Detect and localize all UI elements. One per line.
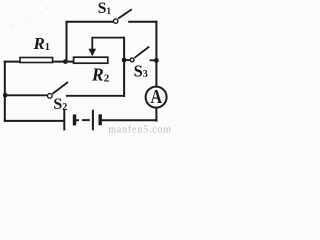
- svg-text:R1: R1: [33, 34, 50, 53]
- wire top rail right segment: [128, 21, 157, 23]
- wire main rail left: [4, 61, 20, 63]
- scan speck: [10, 24, 11, 25]
- wire mid vertical (wiper to S2/S3 node): [123, 37, 125, 97]
- switch S2: [48, 82, 69, 98]
- wire S2 right segment: [66, 95, 125, 97]
- wire bottom rail left: [4, 120, 64, 122]
- ammeter A: [146, 87, 167, 108]
- rheostat R2: [74, 57, 108, 63]
- switch S3: [130, 47, 149, 62]
- battery cell 1: [64, 110, 79, 130]
- node junction dot S2 branch: [3, 93, 8, 98]
- svg-text:R2: R2: [91, 65, 110, 85]
- wiper arrow of R2: [89, 38, 97, 57]
- scan speck: [46, 7, 48, 9]
- wire top-left vertical: [66, 21, 68, 62]
- node junction dot B: [122, 58, 127, 63]
- wire top rail left segment: [67, 21, 114, 23]
- wire left vertical: [4, 61, 6, 122]
- wire S3 right stub: [150, 59, 158, 61]
- svg-text:A: A: [150, 87, 162, 108]
- switch S1: [114, 9, 132, 23]
- wire wiper horizontal: [91, 37, 124, 39]
- wire ammeter to bottom rail: [155, 107, 157, 122]
- node junction dot left-mid: [63, 59, 68, 64]
- wire rail between R1 and R2: [53, 61, 73, 63]
- scan speck: [165, 7, 167, 9]
- wire S2 left segment: [5, 94, 48, 96]
- wire battery middle dash: [82, 119, 90, 121]
- wire bottom rail right: [102, 119, 158, 121]
- battery cell 2: [93, 110, 100, 131]
- svg-text:S1: S1: [98, 0, 112, 17]
- wire stub node B to S3: [124, 59, 130, 61]
- svg-text:S3: S3: [134, 61, 148, 80]
- resistor R1: [20, 58, 53, 63]
- scan speck: [29, 20, 30, 21]
- wire right vertical upper: [155, 21, 157, 87]
- node junction dot right rail: [154, 58, 159, 63]
- svg-text:manfen5.com: manfen5.com: [108, 124, 171, 134]
